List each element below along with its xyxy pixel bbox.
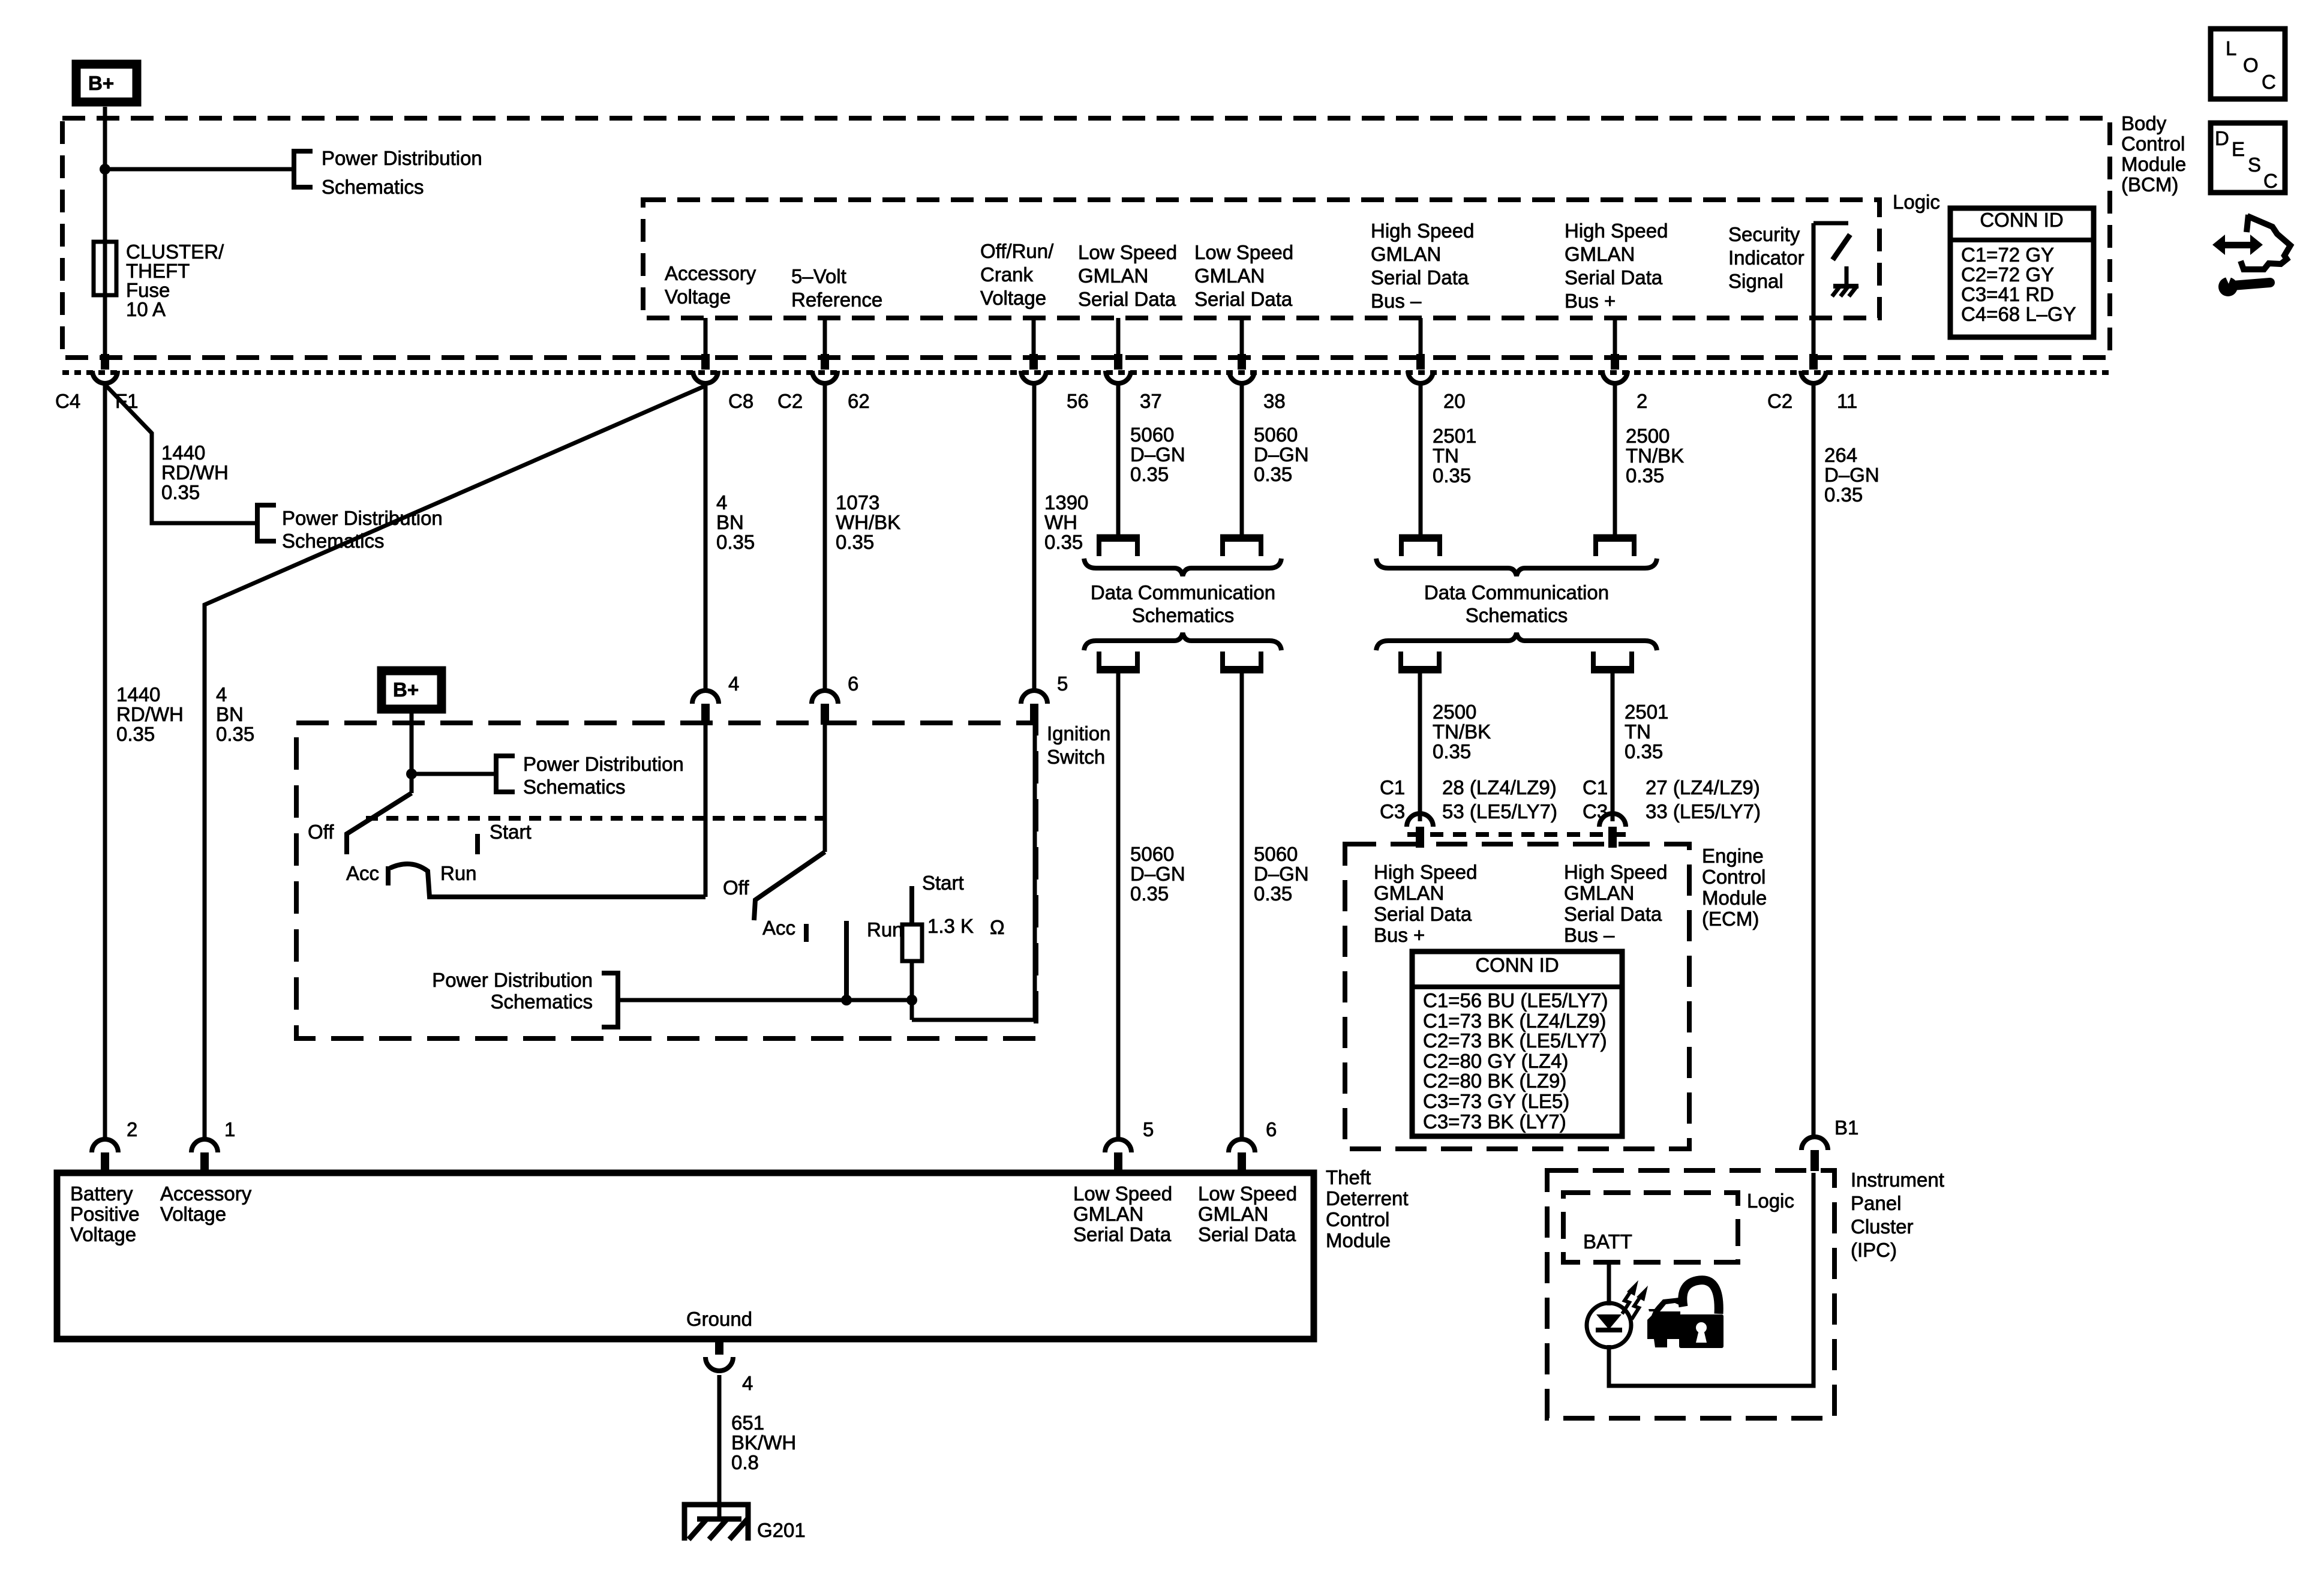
connector pin 20	[1408, 354, 1433, 383]
ECM connector row (dashed)	[1407, 832, 1627, 837]
contact Acc (pole 1)	[386, 866, 391, 885]
off-page terminal (wire 2500 to ECM)	[1401, 652, 1439, 668]
module box Engine Control Module (ECM)	[1345, 844, 1689, 1149]
svg-text:Reference: Reference	[791, 289, 882, 311]
svg-text:GMLAN: GMLAN	[1194, 265, 1265, 287]
svg-text:38: 38	[1263, 390, 1286, 412]
off-page bracket: power distribution (crank)	[602, 973, 618, 1027]
brace to data communication schematics (low speed)	[1084, 559, 1281, 576]
wire BATT to security LED	[1607, 1262, 1611, 1305]
CONN ID table (BCM)	[1950, 208, 2094, 337]
power feed terminal B+ (battery positive voltage)	[76, 64, 137, 102]
svg-text:CONN ID: CONN ID	[1980, 209, 2063, 231]
svg-text:Bus +: Bus +	[1374, 924, 1425, 946]
connector ECM (bus -)	[1599, 813, 1626, 848]
svg-text:High Speed: High Speed	[1565, 220, 1668, 242]
module box Instrument Panel Cluster (IPC)	[1547, 1170, 1834, 1418]
svg-text:S: S	[2248, 154, 2261, 176]
svg-text:Accessory: Accessory	[160, 1182, 252, 1205]
svg-text:GMLAN: GMLAN	[1564, 882, 1634, 904]
DESC reference box	[2211, 123, 2285, 193]
svg-text:5–Volt: 5–Volt	[791, 265, 846, 287]
svg-text:2500: 2500	[1433, 701, 1476, 723]
wire 4 BN diagonal from C8	[205, 386, 705, 1139]
wire junction through fuse to connector	[103, 169, 107, 355]
svg-text:Bus –: Bus –	[1371, 290, 1422, 312]
svg-text:Logic: Logic	[1893, 191, 1940, 213]
junction node (Run 2)	[841, 995, 852, 1005]
connector pin 56	[1021, 354, 1046, 383]
wire to ignition pin 5	[912, 724, 1035, 1020]
svg-text:CONN ID: CONN ID	[1475, 954, 1559, 976]
svg-text:1073: 1073	[836, 491, 879, 514]
connector theft module pin 5	[1105, 1139, 1131, 1173]
svg-text:53 (LE5/LY7): 53 (LE5/LY7)	[1442, 800, 1557, 822]
svg-text:Serial Data: Serial Data	[1371, 266, 1469, 289]
svg-text:Bus –: Bus –	[1564, 924, 1615, 946]
svg-text:6: 6	[848, 673, 858, 695]
svg-text:0.35: 0.35	[1254, 463, 1292, 485]
connector theft module pin 4 (ground)	[705, 1339, 733, 1371]
off-page terminal (wire 20)	[1401, 539, 1440, 556]
svg-text:Serial Data: Serial Data	[1564, 903, 1662, 925]
svg-text:Voltage: Voltage	[160, 1203, 226, 1225]
svg-text:Control: Control	[2121, 133, 2185, 155]
connector IPC pin B1	[1801, 1137, 1828, 1171]
svg-text:TN: TN	[1433, 445, 1459, 467]
connector C2 pin 11	[1801, 354, 1826, 383]
junction node on B+ feed	[100, 164, 110, 175]
contact Run (pole 2)	[844, 921, 849, 1000]
svg-text:Ground: Ground	[686, 1308, 752, 1330]
wire junction to power distribution bracket	[105, 167, 293, 172]
svg-text:Voltage: Voltage	[980, 287, 1046, 309]
off-page terminal (wire 37)	[1099, 539, 1137, 556]
svg-text:Deterrent: Deterrent	[1326, 1187, 1409, 1209]
svg-text:B+: B+	[88, 72, 114, 94]
svg-text:High Speed: High Speed	[1371, 220, 1474, 242]
svg-text:GMLAN: GMLAN	[1073, 1203, 1143, 1225]
svg-text:C1=72 GY: C1=72 GY	[1961, 244, 2054, 266]
svg-text:5060: 5060	[1130, 424, 1174, 446]
off-page terminal (wire 2501 to ECM)	[1593, 652, 1632, 668]
off-page terminal (wire 5060 to pin 5)	[1099, 652, 1137, 668]
module box Body Control Module (BCM)	[62, 118, 2110, 358]
svg-text:Schematics: Schematics	[1466, 604, 1568, 626]
wire resistor to junction	[910, 961, 914, 1020]
svg-text:B1: B1	[1834, 1116, 1858, 1139]
svg-text:High Speed: High Speed	[1374, 861, 1477, 883]
wire 5060 D-GN to theft module pin 6	[1240, 671, 1244, 1139]
svg-text:Voltage: Voltage	[70, 1223, 136, 1245]
svg-text:1: 1	[224, 1118, 235, 1140]
svg-text:0.35: 0.35	[1824, 484, 1863, 506]
svg-text:62: 62	[848, 390, 870, 412]
svg-text:4: 4	[716, 491, 727, 514]
connector theft module pin 6	[1229, 1139, 1255, 1173]
off-page bracket: power distribution (top)	[294, 151, 313, 187]
svg-text:Schematics: Schematics	[1132, 604, 1235, 626]
wire 2501 TN to ECM	[1611, 671, 1615, 821]
vehicle security icon (car with padlock)	[1647, 1280, 1724, 1348]
svg-text:0.35: 0.35	[161, 481, 200, 503]
svg-text:0.35: 0.35	[1044, 531, 1083, 553]
svg-text:C: C	[2262, 71, 2276, 93]
connector theft module pin 2	[92, 1139, 118, 1173]
svg-text:Low Speed: Low Speed	[1078, 241, 1177, 263]
svg-text:Control: Control	[1702, 866, 1765, 888]
wire from C8 to ignition switch pin 4	[704, 384, 708, 691]
svg-text:D: D	[2215, 127, 2229, 149]
svg-text:WH: WH	[1044, 511, 1077, 533]
svg-text:C3=73 BK (LY7): C3=73 BK (LY7)	[1423, 1110, 1566, 1133]
svg-text:Module: Module	[1702, 887, 1767, 909]
svg-text:Start: Start	[922, 872, 964, 894]
svg-text:5060: 5060	[1254, 424, 1298, 446]
connector ignition switch pin 5	[1021, 691, 1047, 725]
wire 1390 WH from pin 56 to ignition switch pin 5	[1032, 384, 1037, 691]
svg-text:Schematics: Schematics	[523, 776, 626, 798]
svg-text:Positive: Positive	[70, 1203, 140, 1225]
svg-text:C2=80 BK (LZ9): C2=80 BK (LZ9)	[1423, 1070, 1566, 1092]
svg-text:0.35: 0.35	[836, 531, 874, 553]
svg-text:0.35: 0.35	[716, 531, 755, 553]
contact Run (pole 1) with wire to pin 4 lead	[390, 864, 705, 897]
svg-text:33 (LE5/LY7): 33 (LE5/LY7)	[1646, 800, 1761, 822]
wire 264 D-GN from pin 11 to IPC B1	[1812, 384, 1816, 1137]
svg-text:E: E	[2232, 138, 2245, 160]
svg-text:D–GN: D–GN	[1254, 863, 1309, 885]
logic box inside IPC	[1563, 1193, 1738, 1262]
connector theft module pin 1	[191, 1139, 218, 1173]
svg-text:Acc: Acc	[346, 862, 379, 884]
svg-text:C3: C3	[1380, 800, 1405, 822]
svg-text:Run: Run	[440, 862, 477, 884]
wire B+ into ignition switch	[410, 713, 414, 793]
off-page bracket: power distribution (ignition)	[496, 756, 515, 792]
svg-text:Module: Module	[1326, 1229, 1391, 1251]
wire F1 diagonal branch	[106, 386, 255, 523]
svg-text:10 A: 10 A	[126, 298, 166, 320]
svg-text:0.35: 0.35	[116, 723, 155, 745]
svg-text:0.35: 0.35	[1130, 882, 1169, 905]
svg-text:Ignition: Ignition	[1047, 722, 1110, 745]
svg-text:Low Speed: Low Speed	[1198, 1182, 1297, 1205]
off-page bracket: power distribution (fuse branch)	[257, 505, 276, 541]
wire LED to B1 lead	[1609, 1173, 1813, 1386]
svg-text:Signal: Signal	[1728, 270, 1783, 292]
svg-text:4: 4	[728, 673, 739, 695]
wire to power distribution (ignition)	[412, 772, 494, 776]
svg-text:37: 37	[1140, 390, 1162, 412]
connector C4 pin F1	[92, 354, 118, 383]
svg-text:0.8: 0.8	[731, 1451, 759, 1473]
svg-text:5060: 5060	[1254, 843, 1298, 865]
contact Acc (pole 2)	[804, 924, 809, 942]
ground G201 symbol	[684, 1505, 748, 1541]
svg-text:6: 6	[1266, 1118, 1277, 1140]
svg-text:2: 2	[1637, 390, 1647, 412]
wire 1073 WH/BK from pin 62 to ignition switch pin 6	[823, 384, 827, 691]
svg-text:2501: 2501	[1433, 425, 1476, 447]
port wires from logic box to BCM connector	[704, 318, 708, 358]
svg-text:Off: Off	[723, 876, 749, 899]
svg-text:C2=73 BK (LE5/LY7): C2=73 BK (LE5/LY7)	[1423, 1029, 1607, 1052]
connector pin 37	[1106, 354, 1131, 383]
svg-text:C2: C2	[1767, 390, 1792, 412]
svg-text:Schematics: Schematics	[490, 990, 593, 1013]
off-page terminal (wire 38)	[1223, 539, 1261, 556]
resistor 1.3 K	[902, 924, 922, 961]
svg-text:B+: B+	[393, 679, 419, 701]
connector ignition switch pin 6	[812, 691, 838, 725]
svg-text:RD/WH: RD/WH	[116, 703, 184, 725]
svg-text:High Speed: High Speed	[1564, 861, 1667, 883]
module box Ignition Switch	[296, 723, 1036, 1038]
svg-text:C: C	[2263, 170, 2278, 192]
logic box inside BCM	[643, 200, 1879, 318]
svg-text:Schematics: Schematics	[322, 176, 424, 198]
svg-text:(ECM): (ECM)	[1702, 908, 1759, 930]
svg-text:Accessory: Accessory	[665, 262, 756, 284]
svg-text:Start: Start	[490, 821, 532, 843]
wire 1440 RD/WH from C4 to theft module pin 2	[103, 384, 107, 1139]
svg-text:C4=68 L–GY: C4=68 L–GY	[1961, 303, 2076, 325]
svg-text:C2=72 GY: C2=72 GY	[1961, 263, 2054, 286]
svg-text:Serial Data: Serial Data	[1078, 288, 1176, 310]
svg-text:Body: Body	[2121, 112, 2167, 134]
svg-text:TN/BK: TN/BK	[1433, 721, 1491, 743]
svg-text:D–GN: D–GN	[1130, 863, 1185, 885]
svg-text:G201: G201	[757, 1519, 806, 1541]
svg-text:Battery: Battery	[70, 1182, 133, 1205]
svg-text:Theft: Theft	[1326, 1166, 1371, 1188]
LED light rays (lightning arrows)	[1622, 1280, 1648, 1319]
svg-text:C1=73 BK (LZ4/LZ9): C1=73 BK (LZ4/LZ9)	[1423, 1010, 1606, 1032]
svg-text:GMLAN: GMLAN	[1374, 882, 1444, 904]
brace to data communication schematics (high speed)	[1376, 559, 1657, 576]
svg-text:Panel: Panel	[1851, 1192, 1901, 1214]
brace from data communication schematics (low speed)	[1084, 633, 1281, 650]
svg-text:GMLAN: GMLAN	[1078, 265, 1148, 287]
svg-text:Low Speed: Low Speed	[1073, 1182, 1172, 1205]
svg-text:Cluster: Cluster	[1851, 1215, 1914, 1238]
svg-text:Crank: Crank	[980, 263, 1034, 286]
svg-text:L: L	[2226, 37, 2236, 59]
svg-text:Serial Data: Serial Data	[1073, 1223, 1172, 1245]
svg-text:27 (LZ4/LZ9): 27 (LZ4/LZ9)	[1646, 776, 1760, 798]
svg-text:Control: Control	[1326, 1208, 1389, 1230]
svg-text:BK/WH: BK/WH	[731, 1431, 796, 1454]
svg-text:Data Communication: Data Communication	[1424, 581, 1609, 604]
svg-text:5: 5	[1057, 673, 1068, 695]
off-page terminal (wire 2)	[1596, 539, 1634, 556]
svg-text:C4: C4	[55, 390, 80, 412]
svg-text:Serial Data: Serial Data	[1194, 288, 1293, 310]
svg-text:Run: Run	[867, 918, 903, 941]
svg-text:4: 4	[216, 683, 227, 706]
svg-text:Security: Security	[1728, 223, 1800, 245]
connector ignition switch pin 4	[692, 691, 719, 725]
ignition switch blade 2 (ignition pole)	[754, 852, 825, 920]
security indicator LED	[1587, 1303, 1631, 1347]
brace from data communication schematics (high speed)	[1376, 633, 1657, 650]
svg-text:Ω: Ω	[990, 916, 1005, 938]
svg-text:0.35: 0.35	[1625, 740, 1663, 763]
svg-text:Bus +: Bus +	[1565, 290, 1616, 312]
svg-text:Serial Data: Serial Data	[1565, 266, 1663, 289]
svg-text:1390: 1390	[1044, 491, 1088, 514]
CONN ID table (ECM)	[1412, 951, 1622, 1136]
svg-text:0.35: 0.35	[1433, 740, 1471, 763]
svg-text:0.35: 0.35	[1130, 463, 1169, 485]
svg-text:D–GN: D–GN	[1130, 443, 1185, 466]
svg-text:C2=80 GY (LZ4): C2=80 GY (LZ4)	[1423, 1050, 1568, 1072]
svg-text:C3=41 RD: C3=41 RD	[1961, 283, 2054, 305]
svg-text:Engine: Engine	[1702, 845, 1764, 867]
svg-text:2: 2	[127, 1118, 137, 1140]
wire ignition pin 6 to blade 2 pivot	[823, 724, 827, 852]
svg-text:1440: 1440	[161, 442, 205, 464]
svg-text:Off/Run/: Off/Run/	[980, 240, 1054, 262]
svg-text:GMLAN: GMLAN	[1371, 243, 1441, 265]
wire 2500 TN/BK to ECM	[1418, 671, 1422, 821]
security indicator switch symbol with ground	[1813, 223, 1858, 358]
svg-text:(IPC): (IPC)	[1851, 1239, 1897, 1261]
svg-text:C2: C2	[777, 390, 803, 412]
wire 5060 D-GN to theft module pin 5	[1116, 671, 1121, 1139]
svg-text:TN: TN	[1625, 721, 1651, 743]
svg-text:Power Distribution: Power Distribution	[322, 147, 482, 169]
svg-text:28 (LZ4/LZ9): 28 (LZ4/LZ9)	[1442, 776, 1557, 798]
svg-text:GMLAN: GMLAN	[1198, 1203, 1268, 1225]
svg-text:Low Speed: Low Speed	[1194, 241, 1293, 263]
svg-text:5: 5	[1143, 1118, 1154, 1140]
svg-text:264: 264	[1824, 444, 1857, 466]
wire 5060 D-GN from pin 37	[1116, 384, 1121, 535]
svg-text:0.35: 0.35	[1626, 464, 1664, 487]
svg-text:11: 11	[1837, 390, 1857, 412]
svg-text:Acc: Acc	[762, 917, 795, 939]
wire Start contact to resistor	[909, 886, 914, 924]
svg-text:0.35: 0.35	[216, 723, 254, 745]
svg-text:BATT: BATT	[1583, 1230, 1632, 1253]
wire 5060 D-GN from pin 38	[1240, 384, 1244, 535]
svg-text:C1=56 BU (LE5/LY7): C1=56 BU (LE5/LY7)	[1423, 989, 1608, 1011]
svg-text:C8: C8	[728, 390, 753, 412]
connector pin C8	[693, 354, 718, 383]
svg-text:C1: C1	[1380, 776, 1405, 798]
junction node (resistor bottom)	[906, 995, 917, 1005]
svg-text:Data Communication: Data Communication	[1091, 581, 1275, 604]
wire 2501 TN from pin 20	[1419, 384, 1423, 535]
svg-text:RD/WH: RD/WH	[161, 461, 229, 484]
svg-text:Voltage: Voltage	[665, 286, 731, 308]
mechanical linkage (dotted)	[366, 816, 823, 821]
svg-text:(BCM): (BCM)	[2121, 173, 2178, 196]
svg-text:20: 20	[1443, 390, 1466, 412]
LOC reference box	[2211, 29, 2285, 99]
svg-text:Power Distribution: Power Distribution	[432, 969, 593, 991]
junction node (ignition B+)	[406, 769, 417, 779]
connector C2 pin 62	[812, 354, 837, 383]
contact Start (pole 1)	[475, 834, 480, 854]
svg-text:2500: 2500	[1626, 425, 1670, 447]
off-page terminal (wire 5060 to pin 6)	[1223, 652, 1261, 668]
svg-text:Serial Data: Serial Data	[1198, 1223, 1296, 1245]
svg-text:D–GN: D–GN	[1824, 464, 1879, 486]
svg-text:0.35: 0.35	[1254, 882, 1292, 905]
svg-text:TN/BK: TN/BK	[1626, 445, 1684, 467]
svg-text:Logic: Logic	[1747, 1190, 1794, 1212]
wire 2500 TN/BK from pin 2	[1613, 384, 1617, 535]
svg-text:Switch: Switch	[1047, 746, 1105, 768]
wire 651 BK/WH to G201	[717, 1375, 722, 1518]
svg-text:BN: BN	[216, 703, 244, 725]
svg-text:2501: 2501	[1625, 701, 1668, 723]
BCM connector row (in-line connector)	[62, 370, 2110, 375]
svg-text:1.3 K: 1.3 K	[927, 915, 974, 937]
svg-text:O: O	[2243, 54, 2259, 76]
svg-text:Indicator: Indicator	[1728, 247, 1804, 269]
ignition switch blade 1 (battery pole)	[347, 793, 412, 854]
svg-text:Instrument: Instrument	[1851, 1169, 1944, 1191]
svg-text:0.35: 0.35	[1433, 464, 1471, 487]
data link / service icon (arrow, connector, wrench)	[2212, 215, 2290, 296]
svg-text:4: 4	[742, 1372, 753, 1394]
svg-text:Off: Off	[308, 821, 334, 843]
svg-text:Serial Data: Serial Data	[1374, 903, 1472, 925]
power feed terminal B+ (ignition switch)	[382, 671, 442, 709]
svg-text:1440: 1440	[116, 683, 160, 706]
svg-text:56: 56	[1067, 390, 1089, 412]
svg-text:BN: BN	[716, 511, 744, 533]
svg-text:5060: 5060	[1130, 843, 1174, 865]
svg-text:D–GN: D–GN	[1254, 443, 1309, 466]
connector pin 38	[1229, 354, 1254, 383]
connector ECM (bus +)	[1407, 813, 1433, 848]
svg-text:Power Distribution: Power Distribution	[523, 753, 684, 775]
connector pin 2	[1602, 354, 1628, 383]
svg-text:GMLAN: GMLAN	[1565, 243, 1635, 265]
module box Theft Deterrent Control Module	[57, 1173, 1314, 1339]
wire power distribution to resistor bottom	[618, 998, 912, 1002]
fuse CLUSTER/THEFT 10 A	[94, 242, 116, 295]
svg-text:C1: C1	[1583, 776, 1608, 798]
svg-text:C3=73 GY (LE5): C3=73 GY (LE5)	[1423, 1090, 1569, 1112]
wire ignition pin 4 to Run contact	[704, 724, 708, 897]
wire B+ to junction	[103, 107, 107, 169]
svg-text:WH/BK: WH/BK	[836, 511, 900, 533]
svg-text:Module: Module	[2121, 153, 2186, 175]
svg-text:651: 651	[731, 1412, 764, 1434]
